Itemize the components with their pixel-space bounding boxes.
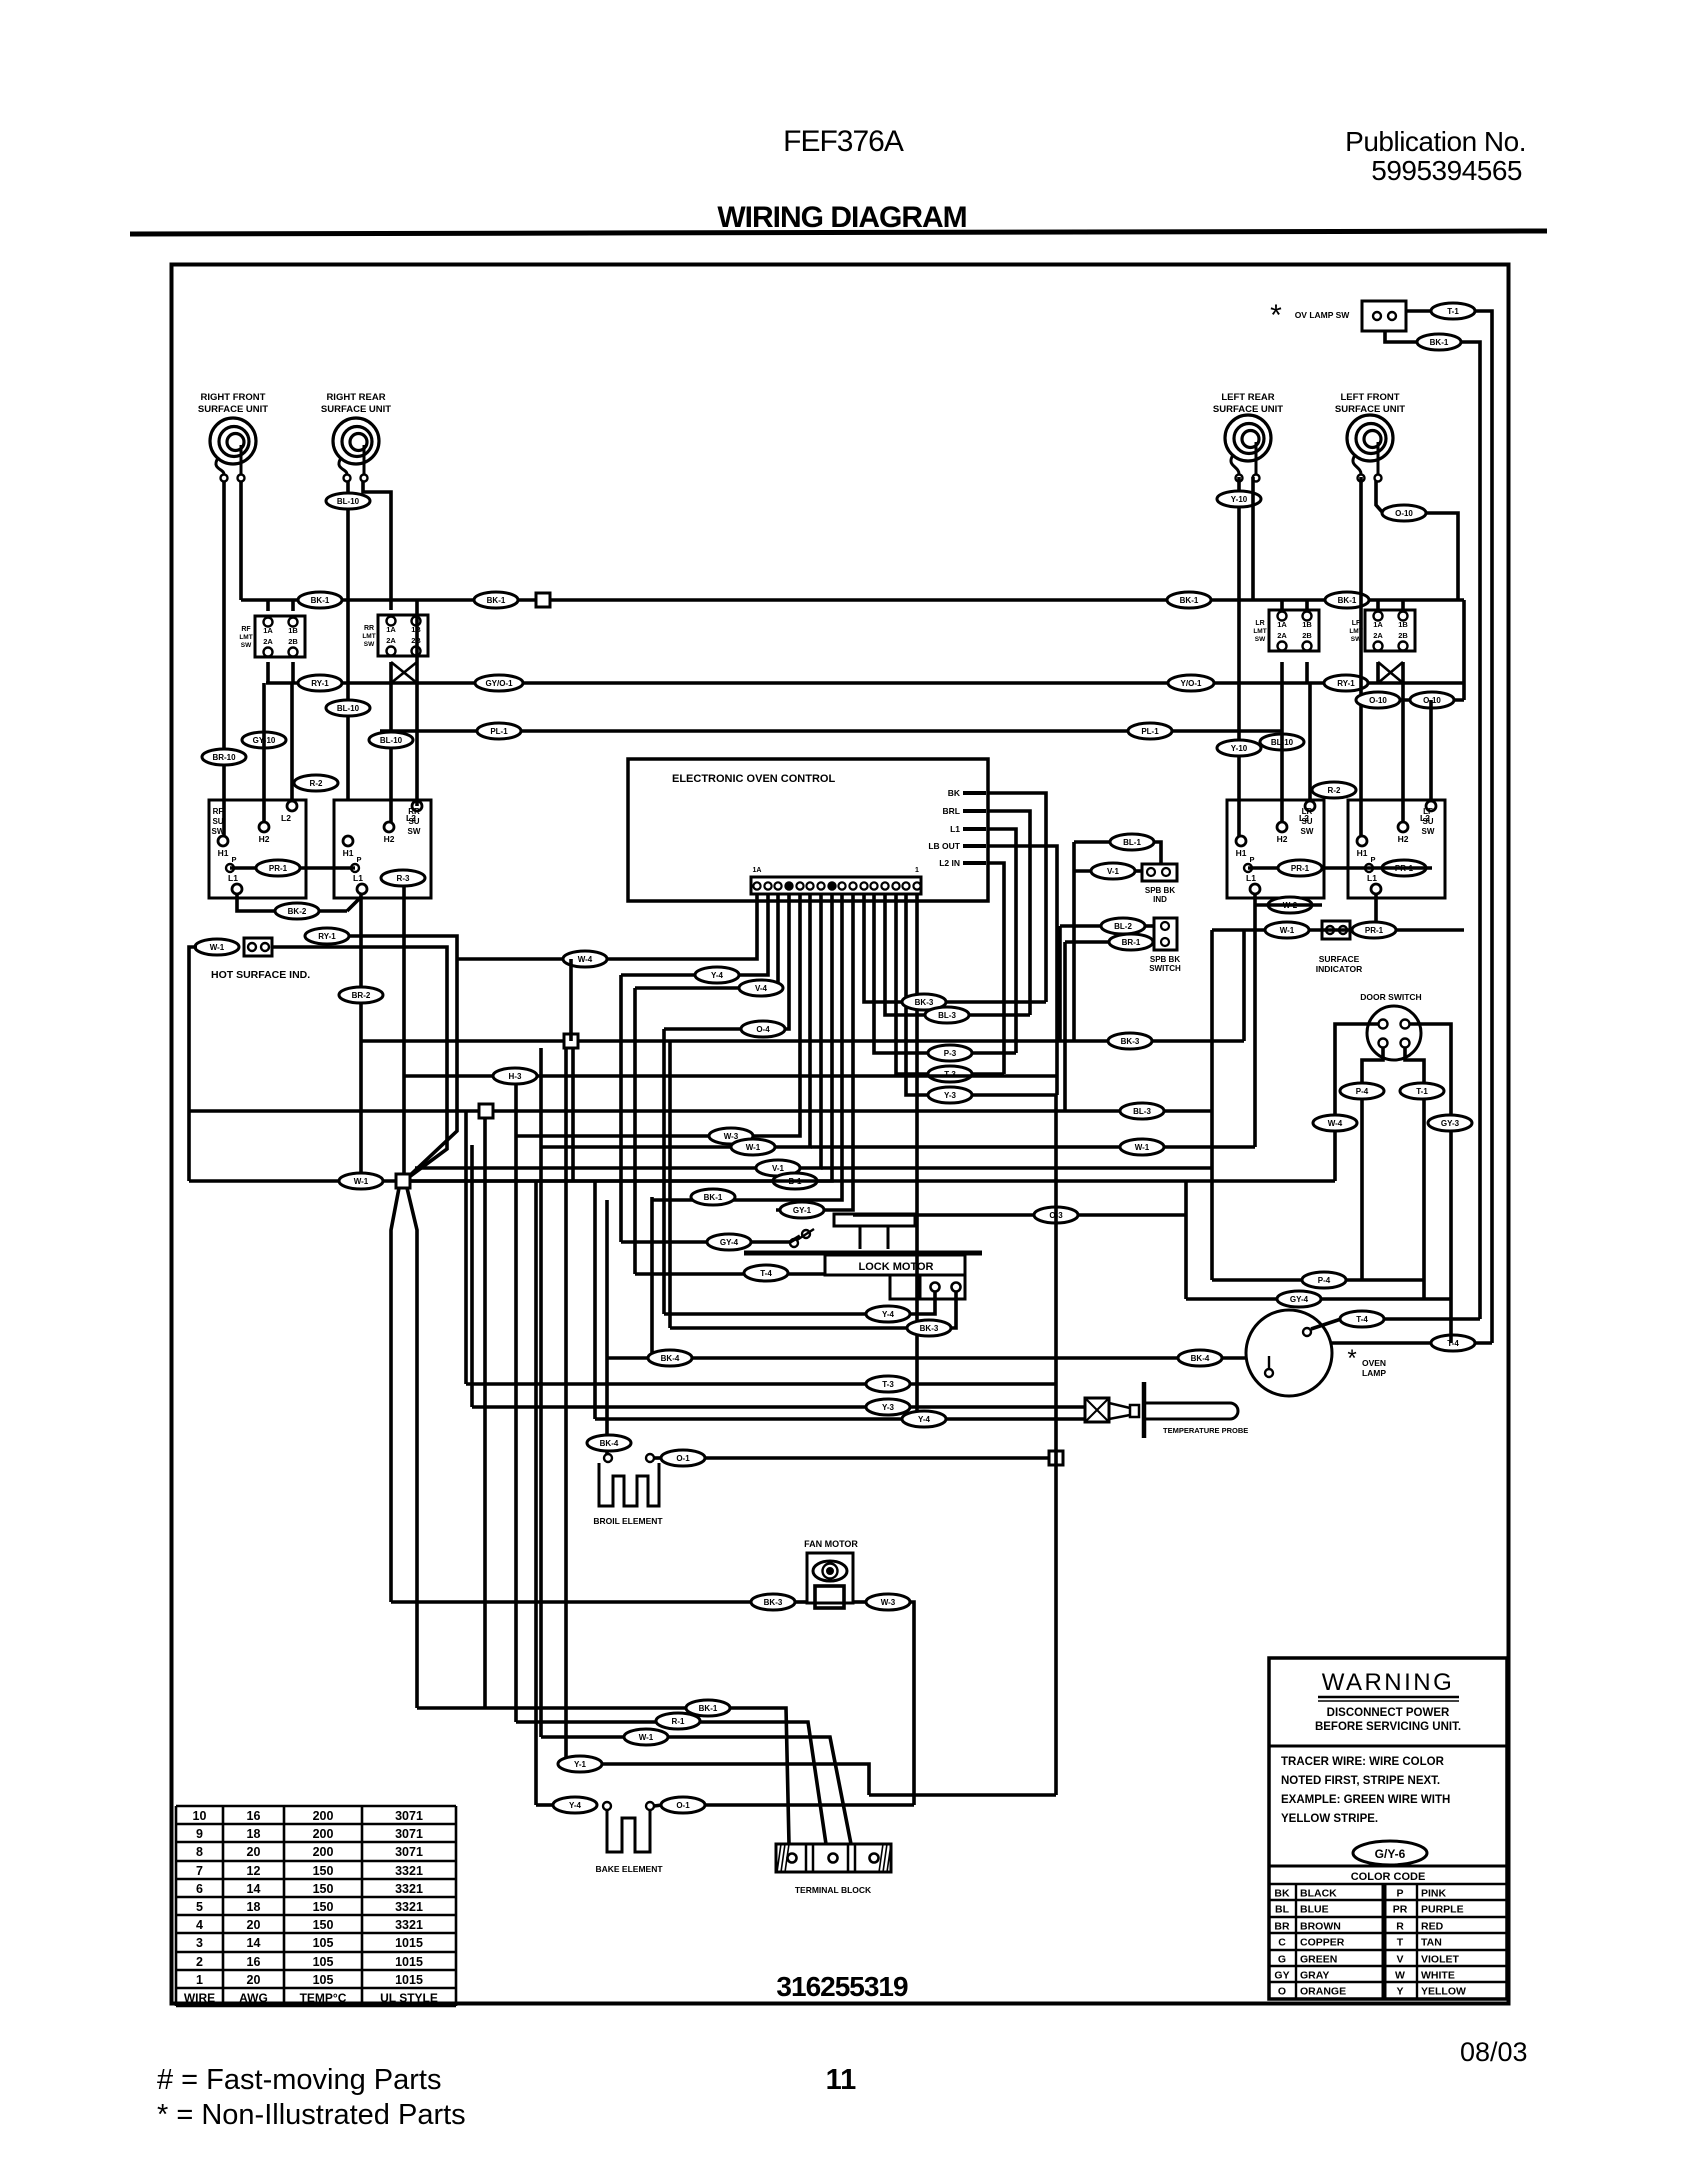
svg-text:RED: RED [1421,1921,1444,1933]
color code table [1269,1866,1507,1999]
svg-text:9: 9 [196,1827,203,1841]
wire v635 [633,988,637,1274]
wire v541 [539,1048,543,1737]
svg-text:OVEN: OVEN [1362,1358,1386,1368]
svg-text:BK-3: BK-3 [764,1598,783,1607]
spb bk switch box [1149,918,1181,973]
tag Y-1 s5 [558,1756,602,1772]
svg-text:PR-1: PR-1 [1291,864,1310,873]
svg-text:RF: RF [241,626,251,633]
tag V-1 spb [1074,863,1142,879]
wire bus y1181 [189,1179,1335,1183]
svg-text:Y-4: Y-4 [569,1801,582,1810]
wire spiral RR left down [346,481,350,800]
svg-text:OV LAMP SW: OV LAMP SW [1295,310,1351,320]
svg-text:200: 200 [313,1827,334,1841]
tag R-2 b [1312,782,1356,798]
wire broil right [654,1456,1048,1460]
svg-text:BR-2: BR-2 [352,991,371,1000]
svg-text:T: T [1397,1937,1404,1949]
svg-text:2B: 2B [1302,631,1312,640]
svg-text:BK-3: BK-3 [1121,1037,1140,1046]
wire fan row [391,1600,866,1604]
svg-text:* = Non-Illustrated Parts: * = Non-Illustrated Parts [157,2099,466,2131]
wire L2IN out [988,863,1004,1074]
svg-text:5: 5 [196,1900,203,1914]
svg-text:BK: BK [948,788,961,798]
svg-text:RY-1: RY-1 [1337,679,1355,688]
svg-text:VIOLET: VIOLET [1421,1954,1460,1966]
tag W-3 f [866,1594,910,1610]
svg-text:BK-1: BK-1 [487,596,506,605]
svg-text:GREEN: GREEN [1300,1954,1337,1966]
tag PR-1 b [1278,860,1322,876]
wire door BR [1405,1048,1424,1299]
svg-text:BRL: BRL [943,806,960,816]
tag W-1 surfind [1265,922,1309,938]
diagram border frame [172,265,1509,2004]
svg-text:L1: L1 [1367,873,1377,883]
svg-text:1: 1 [196,1973,203,1987]
wire v485 [483,1118,487,1708]
svg-text:BK-4: BK-4 [661,1354,680,1363]
svg-text:W-1: W-1 [1280,926,1295,935]
svg-text:V-4: V-4 [755,984,768,993]
tag O-1 bk [654,1797,705,1813]
svg-text:BROIL ELEMENT: BROIL ELEMENT [593,1516,663,1526]
wire lmtLF cross [1378,662,1403,683]
svg-text:W-1: W-1 [210,943,225,952]
svg-text:WARNING: WARNING [1322,1669,1455,1696]
svg-text:LAMP: LAMP [1362,1368,1386,1378]
svg-text:1A: 1A [1373,620,1383,629]
wire lockmotor out2 [670,1292,956,1328]
svg-text:LEFT REAR: LEFT REAR [1221,392,1274,403]
tag BK-4 a [648,1350,692,1366]
wire bus y1795 [869,1793,1056,1797]
svg-text:1015: 1015 [395,1936,423,1950]
tag PL-1 line [380,729,1282,733]
svg-text:W-3: W-3 [881,1598,896,1607]
svg-text:*: * [1270,299,1282,332]
svg-text:P: P [1370,855,1375,864]
svg-text:Y-10: Y-10 [1231,495,1248,504]
tag BK-1 d [1325,592,1369,608]
svg-text:LMT: LMT [239,634,252,641]
svg-text:W-4: W-4 [578,955,593,964]
svg-text:18: 18 [247,1827,261,1841]
wire v466 [464,1111,468,1384]
svg-text:SW: SW [1422,827,1435,836]
svg-text:R-2: R-2 [310,779,323,788]
svg-text:BR: BR [1274,1921,1290,1933]
tag RY-1 a [298,675,342,691]
tag BK-1 ovlamp [1417,334,1461,350]
tag Y/O-1 [1168,675,1214,691]
svg-text:LEFT FRONT: LEFT FRONT [1340,392,1399,403]
tag V-4 m [739,980,783,996]
svg-text:LF: LF [1352,620,1361,627]
wire spiral RR right to lmtRR [363,481,391,610]
svg-text:L2: L2 [281,813,291,823]
svg-text:L1: L1 [1246,873,1256,883]
wire broil left [605,1200,609,1454]
svg-text:PL-1: PL-1 [1141,727,1159,736]
tag Y-4 m [695,967,739,983]
wire lmtRR cross [391,662,417,683]
wire probe row2 [472,1405,1085,1409]
EOC pin labels [928,788,986,868]
svg-text:T-4: T-4 [760,1269,772,1278]
svg-text:2B: 2B [288,637,298,646]
svg-text:P-3: P-3 [944,1049,957,1058]
wire ovlampsw bottom [1385,331,1417,342]
tag W-1 m [731,1139,775,1155]
svg-text:BK-2: BK-2 [288,907,307,916]
tag BK-1 s1 [686,1700,730,1716]
tag BK-3 m [902,994,946,1010]
wire T-1 down right side [1474,311,1492,1343]
svg-text:LR: LR [1302,807,1313,816]
svg-text:WHITE: WHITE [1421,1970,1455,1982]
wire BRL out [988,811,1030,1015]
svg-text:7: 7 [196,1864,203,1878]
svg-text:LMT: LMT [1349,628,1362,635]
svg-text:G/Y-6: G/Y-6 [1375,1847,1406,1861]
svg-text:SPB BK: SPB BK [1145,886,1175,895]
tag BL-3 m [925,1007,969,1023]
svg-text:105: 105 [313,1936,334,1950]
svg-text:IND: IND [1153,895,1167,904]
svg-text:Y/O-1: Y/O-1 [1181,679,1202,688]
tag PR-1 c [1369,860,1432,876]
wire bus y1076 [404,1074,1056,1078]
header model number FEF376A [783,125,904,158]
wire L2e up [1308,683,1312,800]
tag W-2 [1255,897,1322,913]
tag PL-1 b [1128,723,1172,739]
svg-text:BL-3: BL-3 [938,1011,956,1020]
svg-text:H1: H1 [1236,848,1247,858]
svg-text:BL-10: BL-10 [337,704,360,713]
svg-text:BK-1: BK-1 [1338,596,1357,605]
svg-text:1015: 1015 [395,1973,423,1987]
svg-text:W: W [1395,1970,1405,1982]
bake label [595,1864,663,1874]
svg-text:PURPLE: PURPLE [1421,1904,1464,1916]
svg-text:LMT: LMT [1253,628,1266,635]
wire R3 down [402,885,406,1175]
tag W-1 s3 [624,1729,668,1745]
svg-text:LR: LR [1255,620,1264,627]
wire spiral LR right down [1251,477,1255,600]
svg-text:V-1: V-1 [1107,867,1120,876]
svg-text:11: 11 [826,2064,857,2096]
svg-text:3321: 3321 [395,1864,423,1878]
broil label [593,1516,663,1526]
svg-text:200: 200 [313,1845,334,1859]
tag W-4 m [563,951,607,967]
svg-text:O: O [1278,1986,1286,1998]
svg-text:RR: RR [408,807,420,816]
svg-text:RF: RF [213,807,224,816]
junction y1181 [396,1174,410,1188]
svg-text:SW: SW [1301,827,1314,836]
fan motor [807,1553,853,1608]
svg-text:O-10: O-10 [1395,509,1413,518]
tag BK-3 lm [907,1320,951,1336]
svg-text:LOCK MOTOR: LOCK MOTOR [859,1261,934,1273]
svg-text:L1: L1 [353,873,363,883]
svg-text:RIGHT FRONT: RIGHT FRONT [201,392,266,403]
svg-text:WIRING DIAGRAM: WIRING DIAGRAM [717,201,966,234]
tag BK-3 r [1108,1033,1152,1049]
svg-text:RY-1: RY-1 [311,679,329,688]
svg-text:SURFACE UNIT: SURFACE UNIT [198,404,268,415]
svg-text:T-3: T-3 [882,1380,894,1389]
svg-text:BL-10: BL-10 [380,736,403,745]
svg-text:TEMPERATURE PROBE: TEMPERATURE PROBE [1163,1426,1248,1435]
tag T-3 m [928,1066,972,1082]
wire lamp row y1358 [607,1356,1246,1360]
wire L2f up [1429,700,1433,800]
wire lmtRF pins [268,600,293,683]
wire door TR [1410,1024,1451,1343]
svg-text:HOT SURFACE IND.: HOT SURFACE IND. [211,969,310,981]
tag GY-10 [242,732,286,748]
svg-text:BLACK: BLACK [1300,1888,1337,1900]
svg-text:Y-3: Y-3 [882,1403,895,1412]
svg-text:COPPER: COPPER [1300,1937,1345,1949]
wire gauge table [176,1806,456,2006]
wire v1244 [1242,930,1246,1041]
svg-text:16: 16 [247,1809,261,1823]
svg-text:2: 2 [196,1955,203,1969]
wire step5 [566,1764,869,1795]
svg-text:SW: SW [212,827,225,836]
door switch [1367,1006,1421,1060]
svg-text:P-4: P-4 [1318,1276,1331,1285]
svg-text:3321: 3321 [395,1918,423,1932]
svg-text:6: 6 [196,1882,203,1896]
svg-text:GRAY: GRAY [1300,1970,1329,1982]
wire lmtLF pins [1378,600,1403,683]
oven lamp switch label [1295,310,1351,320]
svg-text:3: 3 [196,1936,203,1950]
tag Y-3 p [866,1399,910,1415]
wire v670 [668,1041,672,1328]
svg-text:GY-4: GY-4 [1290,1295,1309,1304]
tag W-4 d [1313,1115,1357,1131]
wire bus y1111 [189,1109,1212,1113]
svg-text:Y-3: Y-3 [944,1091,957,1100]
svg-text:BK-1: BK-1 [704,1193,723,1202]
svg-text:20: 20 [247,1918,261,1932]
svg-text:INDICATOR: INDICATOR [1316,964,1362,974]
wire spiral LR left to H1e [1237,477,1241,836]
svg-text:TAN: TAN [1421,1937,1442,1949]
wire v621 [619,975,623,1242]
wire spiral LF right [1376,481,1458,600]
svg-text:LMT: LMT [362,633,375,640]
wire spiral RF left to H1 [222,481,226,836]
broil element [599,1454,659,1506]
wire spb sw feeds [1060,926,1065,1111]
tag O-10 b [1356,692,1400,708]
tag V-1 m [756,1160,1212,1176]
svg-text:1: 1 [915,867,919,874]
wire P row left [230,866,355,870]
junction y1111 [479,1104,493,1118]
svg-text:BL-2: BL-2 [1114,922,1132,931]
title rule [130,231,1547,234]
svg-text:5995394565: 5995394565 [1371,155,1522,186]
wire L1b down [359,894,363,1181]
tag PR-1 d [1352,922,1396,938]
terminal block label [795,1885,872,1895]
wire bus y683 [266,681,1464,685]
tag Y-4 p [902,1411,946,1427]
svg-text:FEF376A: FEF376A [783,125,904,158]
limit switch LF [1349,610,1415,651]
tag O-4 m [741,1021,785,1037]
tag W-1 r [1120,1139,1164,1155]
lock motor terminals [790,1229,814,1247]
wire bus y1805 [705,1803,914,1807]
svg-text:BK-3: BK-3 [915,998,934,1007]
oven lamp [1246,1310,1332,1396]
tag Y-4 bk [553,1797,597,1813]
tag BR-2 [339,987,383,1003]
tag T-4 lm [744,1265,788,1281]
svg-text:T-1: T-1 [1416,1087,1428,1096]
svg-text:14: 14 [247,1882,261,1896]
svg-text:SU: SU [408,817,419,826]
svg-text:3071: 3071 [395,1809,423,1823]
svg-text:10: 10 [193,1809,207,1823]
tag GY-3 d [1428,1115,1472,1131]
svg-text:P-4: P-4 [1356,1087,1369,1096]
svg-text:150: 150 [313,1918,334,1932]
svg-text:W-1: W-1 [354,1177,369,1186]
wire bus y1215 [853,1213,1186,1217]
wire step2 [516,1722,826,1844]
svg-text:R-3: R-3 [397,874,410,883]
tag BL-10 c [369,732,413,748]
svg-text:YELLOW STRIPE.: YELLOW STRIPE. [1281,1813,1378,1825]
svg-text:16: 16 [247,1955,261,1969]
svg-text:SU: SU [1301,817,1312,826]
tag GY-4 r [1277,1291,1321,1307]
svg-text:BL-3: BL-3 [1133,1107,1151,1116]
junction 1056 1458 [1049,1451,1063,1465]
wire L1 out [988,829,1016,1053]
tag BK-1 a [298,592,342,608]
surface unit RR label [321,392,391,415]
wire lmtRR left pin down [389,662,393,822]
wire fan right down [910,1602,914,1805]
svg-text:BK-4: BK-4 [600,1439,619,1448]
tag T-1 d [1400,1083,1444,1099]
wire surfind left up [1210,930,1214,1280]
svg-text:P: P [356,855,361,864]
svg-text:W-1: W-1 [639,1733,654,1742]
lock motor lower box [890,1275,965,1299]
wire bus y1147 [811,1145,1255,1149]
door switch label [1360,992,1421,1002]
svg-text:H1: H1 [343,848,354,858]
tag BK-1 m [691,1189,735,1205]
spb bk ind box [1142,864,1177,904]
svg-text:1A: 1A [263,626,273,635]
surface indicator row [1212,921,1464,939]
tag BK-4 br [587,1435,631,1451]
wire L1f down [1374,894,1378,930]
svg-text:1B: 1B [1302,620,1312,629]
wire EOC pin fanout [410,893,1057,1419]
tag T-4 b [1431,1335,1475,1351]
svg-text:DISCONNECT POWER: DISCONNECT POWER [1327,1707,1450,1719]
svg-text:EXAMPLE: GREEN WIRE WITH: EXAMPLE: GREEN WIRE WITH [1281,1794,1450,1806]
footer date 08/03 [1460,2037,1528,2067]
svg-text:GY/O-1: GY/O-1 [485,679,513,688]
wire v472 [470,1145,474,1407]
tag B-1 m [773,1173,817,1189]
svg-text:150: 150 [313,1900,334,1914]
tag PR-1 a [256,860,300,876]
svg-text:H2: H2 [259,834,270,844]
svg-text:2A: 2A [263,637,273,646]
wire y700 row [1355,698,1464,702]
bake element [603,1802,654,1852]
svg-text:1A: 1A [753,867,762,874]
tag BK-3 f [751,1594,795,1610]
svg-text:W-3: W-3 [724,1132,739,1141]
surface indicator label [1316,954,1362,974]
tag O-3 br [661,1450,705,1466]
wire v571 [569,959,573,1041]
svg-text:YELLOW: YELLOW [1421,1986,1466,1998]
tag Y-3 m [928,1087,972,1103]
svg-text:SURFACE UNIT: SURFACE UNIT [1213,404,1283,415]
svg-text:SW: SW [408,827,421,836]
svg-text:8: 8 [196,1845,203,1859]
tag T-4 a [1340,1311,1384,1327]
wire probe row1 [466,1382,1056,1386]
svg-text:PL-1: PL-1 [490,727,508,736]
svg-text:BLUE: BLUE [1300,1904,1329,1916]
svg-text:20: 20 [247,1973,261,1987]
wire v652 [650,1197,654,1358]
header publication no [1345,126,1526,186]
svg-text:O-1: O-1 [676,1454,690,1463]
wire hotsurf left down [189,947,197,1181]
terminal block [776,1844,891,1872]
svg-text:105: 105 [313,1955,334,1969]
tag Y-4 lm [866,1306,910,1322]
svg-text:2A: 2A [1373,631,1383,640]
svg-text:RIGHT REAR: RIGHT REAR [326,392,385,403]
tag GY/O-1 [475,675,523,691]
wire probe row3 [595,1417,1085,1421]
svg-text:T-4: T-4 [1356,1315,1368,1324]
svg-text:3321: 3321 [395,1900,423,1914]
wire L2a up [290,683,294,800]
svg-text:2B: 2B [1398,631,1408,640]
surface switch RR [334,800,431,898]
wire y1299 [1186,1181,1451,1299]
svg-text:4: 4 [196,1918,203,1932]
